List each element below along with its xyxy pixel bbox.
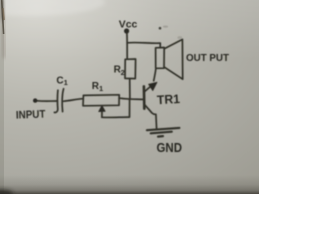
speaker LS1 horn [164, 39, 183, 79]
resistor R2 (box) [125, 59, 136, 79]
ground symbol bar 3 [158, 135, 163, 138]
bottom dark strip [0, 175, 259, 194]
wire Vcc dot to R2 top [126, 33, 128, 59]
wire input to C1 [37, 100, 57, 102]
paper background [0, 0, 259, 194]
ground symbol bar 2 [151, 132, 172, 134]
wire C1 to R1 [64, 99, 84, 102]
R1 wiper arrow [101, 111, 103, 117]
speck smudge right of dot [163, 26, 168, 28]
speaker LS1 body (box) [156, 48, 165, 69]
paper left edge shadow [2, 0, 5, 58]
left edge subtle darkening [0, 0, 4, 194]
svg-text:Vcc: Vcc [119, 18, 138, 30]
node input terminal (dot) [33, 98, 37, 102]
label R1 [92, 81, 103, 93]
speck dot [159, 27, 162, 30]
svg-text:1: 1 [99, 84, 103, 93]
transistor TR1 collector line [145, 86, 152, 92]
svg-text:GND: GND [157, 140, 183, 155]
transistor TR1 emitter line [144, 104, 156, 128]
wire wiper return (down, right, up to base junction) [102, 100, 130, 118]
bottom-left dark corner [0, 190, 13, 198]
svg-text:1: 1 [64, 78, 68, 87]
wire Vcc branch to speaker [127, 43, 160, 48]
left edge warm mark [3, 8, 4, 20]
svg-text:INPUT: INPUT [16, 109, 46, 122]
label C1 [56, 75, 67, 87]
transistor TR1 collector arrowhead [149, 82, 157, 90]
transistor TR1 base bar [143, 86, 146, 108]
svg-text:C: C [56, 75, 63, 86]
speck faint smudge [177, 36, 182, 39]
node Vcc (junction dot) [124, 28, 129, 33]
top-left glare [0, 0, 105, 16]
capacitor C1 left plate [54, 90, 58, 112]
ground symbol bar 1 [147, 128, 180, 130]
svg-text:TR1: TR1 [157, 92, 181, 107]
top brightening band [0, 0, 259, 60]
resistor R1 (box) [83, 95, 119, 106]
wire R2 bottom to base junction [129, 79, 131, 100]
svg-text:2: 2 [121, 68, 125, 77]
label R2 [114, 64, 125, 77]
wire base (R1 to transistor base) [119, 98, 144, 99]
svg-text:OUT PUT: OUT PUT [186, 52, 230, 64]
wire speaker to collector [154, 68, 156, 81]
capacitor C1 right plate [62, 89, 63, 112]
